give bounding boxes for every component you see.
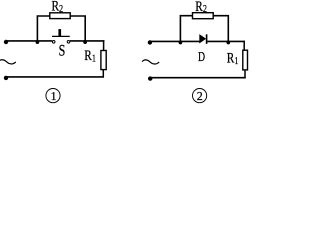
wire: top rail left segment xyxy=(5,40,52,42)
AC source tilde xyxy=(142,60,159,64)
svg-text:S: S xyxy=(59,43,66,60)
wire: top rail right segment xyxy=(207,40,245,42)
circled number 2 : circle xyxy=(193,89,207,103)
circled number 1 : circle xyxy=(46,89,60,103)
AC source tilde xyxy=(0,60,16,64)
switch S: button stem xyxy=(58,29,61,36)
node: bottom-left terminal dot xyxy=(148,76,152,80)
wire: bottom rail xyxy=(6,76,105,78)
svg-text:R2: R2 xyxy=(52,0,64,15)
node: bottom-left terminal dot xyxy=(4,76,8,80)
wire: down to R1 xyxy=(243,41,245,51)
junction dot left of R2 branch xyxy=(179,41,183,45)
junction dot right of R2 branch xyxy=(226,41,230,45)
switch S: right contact circle xyxy=(67,41,70,44)
diode D: anode triangle xyxy=(200,35,206,43)
resistor R2 xyxy=(193,13,214,19)
wire: R1 bottom stub xyxy=(102,70,104,78)
resistor R2 xyxy=(50,13,70,19)
switch S: left contact circle xyxy=(52,41,55,44)
wire: R2 branch left vertical + top horizontal xyxy=(37,16,50,41)
wire: R2 branch left vertical + top horizontal xyxy=(180,16,192,42)
wire: down to R1 xyxy=(103,40,105,50)
node: top-left terminal dot xyxy=(4,40,8,44)
resistor R1 xyxy=(101,51,106,70)
svg-text:1: 1 xyxy=(51,89,57,103)
resistor R1 xyxy=(243,50,248,70)
wire: top rail right segment xyxy=(70,40,105,42)
svg-text:2: 2 xyxy=(197,89,203,103)
diode D: cathode bar xyxy=(206,34,208,44)
svg-text:R1: R1 xyxy=(227,51,239,67)
svg-text:D: D xyxy=(198,49,205,64)
wire: R2 branch top horizontal right + right vertical xyxy=(213,16,228,42)
svg-text:R2: R2 xyxy=(195,0,207,15)
junction dot right of R2 branch xyxy=(83,40,87,44)
wire: R2 branch top horizontal right + right vertical xyxy=(70,16,85,41)
node: top-left terminal dot xyxy=(148,40,152,44)
switch S: bar xyxy=(52,35,70,37)
wire: bottom rail xyxy=(150,77,246,79)
junction dot left of R2 branch xyxy=(36,40,40,44)
svg-text:R1: R1 xyxy=(84,48,96,64)
wire: top rail left segment xyxy=(150,40,200,42)
wire: R1 bottom stub xyxy=(244,70,246,79)
